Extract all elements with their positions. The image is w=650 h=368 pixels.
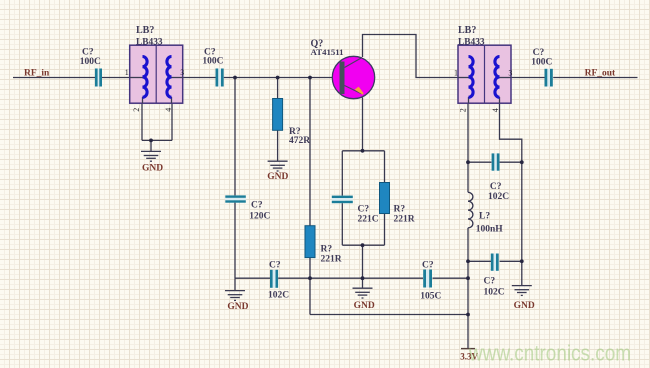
svg-text:LB433: LB433	[136, 37, 163, 47]
svg-text:2: 2	[132, 108, 141, 112]
T2 left winding	[468, 57, 473, 98]
svg-text:GND: GND	[514, 301, 535, 311]
svg-text:102C: 102C	[268, 290, 289, 300]
node T1 gnd junction	[149, 139, 153, 143]
node emitter top junction	[361, 149, 365, 153]
wire T2 pin3 to C8	[511, 77, 545, 79]
wire loop right upper to R3	[384, 151, 386, 183]
inductor L1 100nH	[468, 192, 473, 228]
svg-text:C?: C?	[484, 277, 496, 287]
wire node at x=235 down to C3	[234, 78, 236, 196]
ground GND4 (emitter)	[353, 288, 373, 298]
resistor R1 472R	[273, 99, 283, 131]
svg-text:100C: 100C	[80, 57, 101, 67]
wire T1 pin2 down	[141, 103, 143, 140]
T2 right winding	[495, 57, 500, 98]
capacitor C4 102C	[270, 270, 278, 288]
svg-text:C?: C?	[490, 182, 502, 192]
wire bottom rail right segment	[433, 277, 469, 279]
wire bottom rail left segment	[235, 277, 270, 279]
T1 right winding	[167, 57, 172, 98]
wire collector up and over to T2 pin1	[363, 35, 459, 78]
wire R2 bottom to bottom rail	[309, 258, 311, 279]
svg-text:102C: 102C	[488, 192, 509, 202]
capacitor C8 100C	[545, 69, 553, 87]
svg-text:102C: 102C	[484, 288, 505, 298]
wire bottom rail mid segment	[278, 277, 423, 279]
node 3.3V rail	[466, 313, 470, 317]
node C7a right	[520, 160, 524, 164]
wire GND3 stem	[234, 278, 236, 290]
svg-text:LB?: LB?	[458, 25, 476, 36]
wire loop left lower from C6	[341, 203, 343, 245]
svg-text:www.cntronics.com: www.cntronics.com	[468, 341, 631, 366]
wire 3.3V rail horizontal	[310, 314, 468, 316]
svg-text:C?: C?	[533, 48, 545, 58]
svg-text:105C: 105C	[420, 291, 441, 301]
wire loop right lower from R3	[384, 214, 386, 246]
capacitor C7a 102C	[492, 153, 500, 170]
node C7a left	[466, 160, 470, 164]
svg-text:R?: R?	[394, 205, 406, 215]
T1 left winding	[142, 57, 147, 98]
capacitor C7b 102C	[491, 254, 499, 271]
svg-text:120C: 120C	[249, 211, 270, 221]
svg-text:1: 1	[454, 68, 458, 77]
node bottom rail at x=362.5	[361, 276, 365, 280]
node R1 junction	[276, 76, 280, 80]
wire T1 pin4 down	[171, 103, 173, 140]
svg-text:100C: 100C	[202, 57, 223, 67]
wire C1 to transformer T1 pin1	[102, 77, 130, 79]
capacitor C1 100C	[95, 69, 102, 87]
svg-text:C?: C?	[82, 47, 94, 57]
wire loop to bottom rail	[362, 245, 364, 278]
wire 3.3V rail down from node	[309, 278, 311, 314]
svg-text:L?: L?	[479, 212, 490, 222]
wire emitter loop bottom	[342, 244, 384, 246]
svg-text:GND: GND	[142, 164, 163, 174]
wire C3 bottom to bottom rail	[234, 203, 236, 279]
wire to GND of T1	[150, 140, 152, 151]
svg-text:4: 4	[491, 108, 500, 112]
node bottom rail at x=310	[308, 276, 312, 280]
wire RF_in to C1	[13, 77, 95, 79]
svg-text:RF_out: RF_out	[585, 68, 616, 78]
wire C7a left	[468, 161, 491, 163]
ground GND1 (T1)	[141, 151, 161, 161]
emitter arrow	[355, 87, 364, 95]
ground GND3 (bottom rail left)	[225, 291, 245, 301]
wire T1 pin3 to C2	[183, 77, 216, 79]
wire inductor bottom to rail	[467, 228, 469, 315]
power port 3.3V bar	[461, 348, 475, 350]
capacitor C3 120C	[225, 195, 246, 202]
node C2/C3 junction	[233, 76, 237, 80]
svg-text:221C: 221C	[358, 215, 379, 225]
resistor R2 221R	[305, 226, 315, 258]
svg-text:C?: C?	[269, 260, 281, 270]
wire C2 to transistor base	[224, 77, 333, 79]
transformer U1 LB433 box	[130, 45, 183, 103]
wire emitter down	[362, 98, 364, 151]
svg-text:C?: C?	[251, 201, 263, 211]
transformer U2 LB433 box	[458, 45, 511, 103]
svg-text:1: 1	[125, 68, 129, 77]
svg-text:RF_in: RF_in	[24, 68, 50, 78]
svg-text:LB?: LB?	[136, 25, 154, 36]
wire R1 bottom to GND2	[277, 130, 279, 161]
svg-text:4: 4	[164, 108, 173, 112]
wire C8 to RF_out	[553, 77, 637, 79]
svg-text:221R: 221R	[321, 254, 342, 264]
wire T2 pin2 down to inductor	[467, 103, 469, 192]
wire loop left upper to C6	[341, 151, 343, 196]
svg-text:100nH: 100nH	[476, 224, 504, 234]
node base junction	[308, 76, 312, 80]
svg-text:100C: 100C	[531, 58, 552, 68]
svg-text:3: 3	[180, 68, 184, 77]
svg-text:C?: C?	[422, 260, 434, 270]
wire T2 pin4 jog	[500, 103, 522, 285]
ground GND2 (R1)	[268, 161, 288, 171]
wire node x=310 down to R2	[309, 78, 311, 226]
wire C7a right	[500, 161, 522, 163]
svg-text:472R: 472R	[289, 136, 310, 146]
svg-text:GND: GND	[267, 172, 288, 182]
wire GND4 stem	[362, 278, 364, 288]
wire 3.3V rail to power port	[467, 315, 469, 349]
svg-text:3: 3	[508, 68, 512, 77]
wire emitter loop top	[342, 150, 384, 152]
resistor R3 221R	[380, 183, 390, 214]
node C7b right	[520, 259, 524, 263]
wire node x=277.6 down to R1	[277, 78, 279, 99]
svg-text:AT41511: AT41511	[311, 47, 344, 57]
svg-text:C?: C?	[358, 205, 370, 215]
svg-text:GND: GND	[354, 301, 375, 311]
svg-text:2: 2	[458, 108, 467, 112]
svg-text:LB433: LB433	[458, 37, 485, 47]
node bottom rail at x=468	[466, 276, 470, 280]
ground GND5 (right)	[512, 286, 532, 296]
svg-text:GND: GND	[227, 302, 248, 312]
wire joining T1 pins 2,4	[142, 139, 172, 141]
wire C7b right	[500, 260, 522, 262]
capacitor C5 105C	[423, 270, 432, 288]
transistor Q1 AT41511	[332, 56, 374, 98]
capacitor C6 221C	[332, 196, 353, 204]
node emitter bottom junction	[361, 243, 365, 247]
svg-text:R?: R?	[321, 244, 333, 254]
svg-text:221R: 221R	[394, 215, 415, 225]
node C7b left	[466, 259, 470, 263]
capacitor C2 100C	[216, 69, 224, 87]
wire C7b left	[468, 260, 491, 262]
